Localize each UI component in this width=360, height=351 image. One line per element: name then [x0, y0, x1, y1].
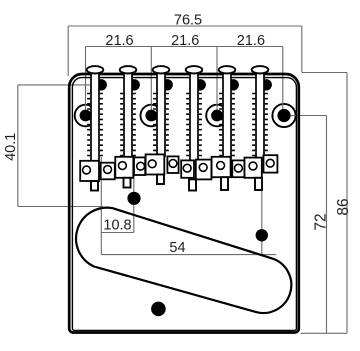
saddle block 1 — [80, 161, 99, 181]
saddle block 9 screw hole — [217, 162, 225, 170]
intonation screw 6 thread ticks — [252, 94, 268, 156]
saddle block 7 — [181, 160, 194, 177]
saddle block 11 — [245, 158, 262, 178]
mounting screw hole left — [127, 192, 140, 205]
saddle block 5 — [146, 154, 165, 174]
saddle block 6 screw hole — [169, 160, 177, 168]
mounting screw hole right — [256, 229, 268, 241]
saddle block 6 — [167, 156, 178, 173]
countersunk screw hole 4 (ring) — [272, 104, 295, 127]
dimension 10.8 string spacing — [101, 157, 134, 233]
saddle block 2 screw hole — [104, 166, 112, 174]
dimension 72 hole row to bottom edge — [289, 116, 327, 334]
string-through hole 4 — [195, 79, 206, 90]
dimension 86 overall height — [301, 73, 348, 334]
intonation screw 1 thread ticks — [87, 94, 103, 156]
saddle block 10 — [232, 160, 244, 177]
saddle block 3 — [115, 157, 133, 178]
intonation screw 5 shaft — [223, 71, 231, 159]
saddle block 8 screw hole — [199, 164, 207, 172]
svg-text:86: 86 — [335, 198, 352, 215]
countersunk screw hole 4 (bore) — [277, 109, 290, 122]
string-through hole 2 — [129, 79, 140, 90]
saddle block 2 — [101, 163, 115, 180]
string-through hole 3 — [162, 79, 173, 90]
dimension 76.5 overall width — [68, 26, 302, 76]
countersunk screw hole 3 (bore) — [211, 110, 223, 122]
intonation screw 2 shaft — [124, 71, 132, 159]
saddle block 7 screw hole — [183, 164, 191, 172]
intonation screw 4 protruding end — [189, 179, 196, 190]
svg-text:21.6: 21.6 — [105, 33, 133, 49]
countersunk screw hole 1 (ring) — [75, 105, 97, 127]
intonation screw 2 thread ticks — [120, 94, 136, 156]
intonation screw 1 head — [87, 66, 104, 73]
saddle block 10 screw hole — [235, 164, 243, 172]
saddle block 12 screw hole — [266, 159, 274, 167]
intonation screw 3 shaft — [157, 71, 165, 156]
intonation screw 4 head — [186, 66, 203, 73]
countersunk screw hole 3 (ring) — [206, 105, 228, 127]
svg-text:21.6: 21.6 — [171, 33, 199, 49]
svg-text:54: 54 — [169, 240, 185, 256]
string-through hole 5 — [228, 79, 239, 90]
saddle block 12 — [264, 155, 278, 172]
saddle block 1 screw hole — [83, 166, 91, 174]
svg-text:21.6: 21.6 — [237, 33, 265, 49]
intonation screw 5 head — [219, 66, 236, 73]
saddle block 9 — [212, 157, 231, 177]
svg-text:76.5: 76.5 — [174, 12, 202, 28]
saddle block 4 screw hole — [137, 162, 145, 170]
svg-text:10.8: 10.8 — [103, 218, 131, 234]
intonation screw 2 head — [120, 66, 137, 73]
saddle block 8 — [196, 160, 212, 180]
intonation screw 4 shaft — [190, 71, 198, 162]
countersunk screw hole 2 (bore) — [145, 110, 157, 122]
bridge plate outer edge — [69, 74, 299, 333]
pickup opening (slanted slot) — [76, 208, 291, 313]
svg-text:72: 72 — [312, 213, 329, 230]
intonation screw 3 head — [153, 66, 170, 73]
dimension 21.6 x3 mounting hole spacing — [86, 47, 283, 116]
intonation screw 2 protruding end — [124, 178, 131, 188]
intonation screw 5 thread ticks — [219, 94, 235, 156]
saddle block 5 screw hole — [148, 160, 156, 168]
dimension 40.1 string row to pickup opening — [18, 85, 103, 207]
intonation screw 3 protruding end — [157, 175, 164, 185]
string-through hole 1 — [96, 79, 107, 90]
string-through hole 6 — [261, 79, 272, 90]
intonation screw 4 thread ticks — [186, 94, 202, 156]
intonation screw 3 thread ticks — [153, 94, 169, 151]
saddle block 3 screw hole — [119, 162, 127, 170]
intonation screw 1 shaft — [91, 71, 99, 162]
saddle block 11 screw hole — [249, 162, 257, 170]
intonation screw 6 protruding end — [255, 178, 262, 190]
mounting screw hole bottom — [151, 302, 166, 317]
saddle block 4 — [134, 157, 145, 175]
countersunk screw hole 2 (ring) — [141, 105, 163, 127]
intonation screw 6 head — [252, 66, 269, 73]
countersunk screw hole 1 (bore) — [80, 110, 92, 122]
intonation screw 1 protruding end — [91, 181, 98, 191]
intonation screw 5 protruding end — [221, 177, 228, 190]
intonation screw 6 shaft — [256, 71, 264, 160]
dimension 54 string span — [101, 180, 276, 255]
svg-text:40.1: 40.1 — [3, 133, 19, 161]
bridge plate inner lip line — [72, 78, 296, 331]
